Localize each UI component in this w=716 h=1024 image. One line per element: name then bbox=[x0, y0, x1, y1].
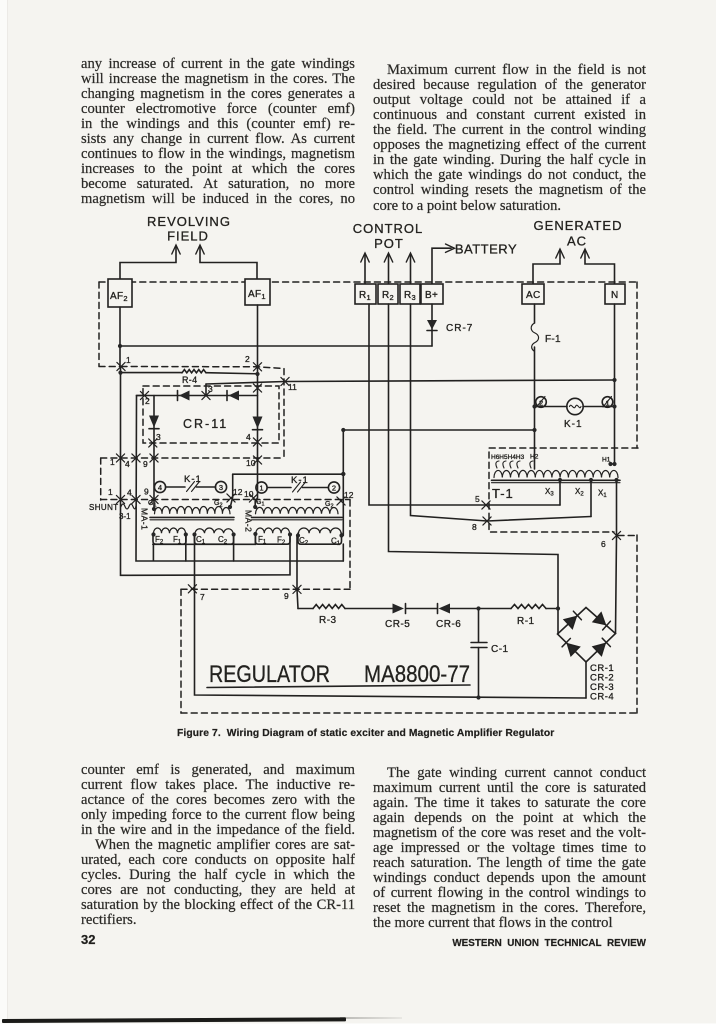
svg-text:AC: AC bbox=[567, 234, 587, 249]
svg-text:REGULATOR: REGULATOR bbox=[209, 661, 330, 688]
svg-text:7: 7 bbox=[200, 592, 205, 602]
svg-text:C-1: C-1 bbox=[491, 644, 509, 655]
svg-text:BATTERY: BATTERY bbox=[455, 242, 517, 257]
svg-text:F-1: F-1 bbox=[545, 334, 561, 345]
svg-text:3: 3 bbox=[219, 483, 223, 492]
svg-text:CR-4: CR-4 bbox=[590, 692, 614, 703]
svg-text:1: 1 bbox=[606, 399, 610, 408]
svg-text:G1: G1 bbox=[256, 499, 265, 508]
svg-text:CR-7: CR-7 bbox=[446, 323, 473, 334]
svg-text:4: 4 bbox=[158, 483, 162, 492]
svg-text:H1: H1 bbox=[602, 457, 611, 464]
svg-text:2: 2 bbox=[245, 354, 250, 364]
svg-text:F2: F2 bbox=[277, 536, 286, 547]
svg-text:GENERATED: GENERATED bbox=[534, 218, 623, 233]
svg-text:3: 3 bbox=[156, 432, 161, 442]
svg-text:FIELD: FIELD bbox=[167, 229, 209, 244]
svg-text:1: 1 bbox=[110, 457, 115, 467]
svg-text:X3: X3 bbox=[545, 487, 554, 498]
svg-text:1: 1 bbox=[126, 355, 131, 365]
svg-text:R-1: R-1 bbox=[517, 616, 535, 627]
svg-text:POT: POT bbox=[374, 236, 404, 251]
svg-text:C2: C2 bbox=[299, 536, 309, 547]
svg-text:C1: C1 bbox=[331, 537, 341, 548]
svg-text:G2: G2 bbox=[214, 500, 223, 509]
svg-text:1: 1 bbox=[108, 487, 113, 497]
svg-text:11: 11 bbox=[288, 382, 297, 392]
svg-text:2: 2 bbox=[145, 396, 150, 406]
svg-text:X2: X2 bbox=[575, 487, 584, 498]
svg-text:4: 4 bbox=[125, 459, 130, 469]
svg-text:CR-11: CR-11 bbox=[183, 417, 228, 431]
svg-text:2: 2 bbox=[539, 399, 543, 408]
svg-text:C2: C2 bbox=[218, 535, 228, 546]
svg-text:H2: H2 bbox=[530, 454, 539, 461]
svg-text:X1: X1 bbox=[598, 489, 607, 500]
svg-text:MA-1: MA-1 bbox=[140, 508, 150, 530]
svg-text:8: 8 bbox=[472, 522, 477, 532]
svg-text:G2: G2 bbox=[325, 501, 334, 510]
svg-text:K-1: K-1 bbox=[184, 474, 202, 485]
svg-text:2: 2 bbox=[332, 484, 336, 493]
svg-text:F1: F1 bbox=[258, 535, 267, 546]
svg-text:K-1: K-1 bbox=[291, 475, 309, 486]
svg-text:R-3: R-3 bbox=[319, 615, 337, 626]
svg-text:5: 5 bbox=[475, 494, 480, 504]
svg-text:N: N bbox=[611, 290, 619, 301]
svg-text:MA-2: MA-2 bbox=[244, 510, 254, 532]
svg-text:CR-5: CR-5 bbox=[385, 619, 410, 630]
svg-text:3: 3 bbox=[208, 384, 213, 394]
svg-text:AC: AC bbox=[526, 290, 541, 301]
svg-text:9: 9 bbox=[144, 487, 149, 497]
svg-text:C1: C1 bbox=[196, 535, 206, 546]
svg-text:3-1: 3-1 bbox=[119, 512, 131, 521]
svg-text:CR-6: CR-6 bbox=[436, 619, 461, 630]
svg-text:CONTROL: CONTROL bbox=[353, 221, 424, 236]
svg-text:B+: B+ bbox=[425, 290, 438, 301]
svg-text:F2: F2 bbox=[155, 535, 164, 546]
svg-text:6: 6 bbox=[601, 539, 606, 549]
svg-text:4: 4 bbox=[127, 488, 132, 498]
svg-text:H6H5H4H3: H6H5H4H3 bbox=[491, 454, 525, 461]
svg-text:1: 1 bbox=[259, 484, 263, 493]
svg-text:4: 4 bbox=[246, 432, 251, 442]
svg-text:K-1: K-1 bbox=[564, 419, 583, 430]
svg-text:9: 9 bbox=[143, 459, 148, 469]
svg-text:12: 12 bbox=[233, 487, 243, 497]
svg-text:MA8800-77: MA8800-77 bbox=[364, 661, 470, 688]
svg-text:10: 10 bbox=[244, 489, 254, 499]
svg-text:REVOLVING: REVOLVING bbox=[147, 214, 231, 229]
svg-text:T-1: T-1 bbox=[492, 486, 514, 501]
svg-text:10: 10 bbox=[246, 458, 256, 468]
svg-text:12: 12 bbox=[344, 490, 354, 500]
svg-text:SHUNT: SHUNT bbox=[89, 503, 119, 512]
svg-text:R-4: R-4 bbox=[182, 375, 197, 385]
svg-text:F1: F1 bbox=[173, 535, 182, 546]
svg-text:9: 9 bbox=[284, 591, 289, 601]
